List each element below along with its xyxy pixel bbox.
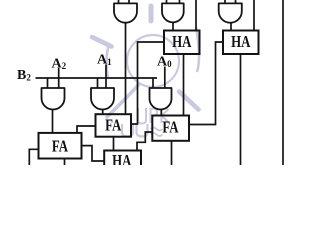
wire Gt4 output to HA2 <box>230 23 232 31</box>
wire bus to gate3 stub <box>152 78 154 88</box>
and gate Gm1 <box>42 88 65 110</box>
and gate Gm2 <box>91 88 114 110</box>
half adder HA2 box <box>223 31 259 55</box>
wire HA1 sum output to FA2 <box>183 54 185 116</box>
full adder FA3 box <box>39 133 82 159</box>
svg-text:A1: A1 <box>97 53 112 68</box>
half adder HA1 box <box>164 31 200 55</box>
watermark shine arc right <box>196 27 199 72</box>
and gate Gt1 top <box>114 3 137 22</box>
wire A1 drop <box>105 65 107 89</box>
wire V1 full height right <box>282 0 284 165</box>
wire bus B2 <box>36 77 158 79</box>
watermark letters row2 <box>122 124 133 137</box>
wire A2 drop <box>58 68 60 88</box>
and gate Gm3 <box>150 88 172 110</box>
watermark dash upper-left <box>92 37 112 47</box>
svg-text:HA: HA <box>172 34 192 52</box>
wire HA2 sum output to bottom <box>240 54 242 165</box>
wire FA1 output to HA3 <box>113 137 115 151</box>
wire Wf FA3 right to HA3 left <box>82 146 105 161</box>
wire Gt1 output long to FA1 <box>125 22 127 114</box>
wire Gm2 output to FA1 <box>102 110 104 115</box>
wire Gm3 output to FA2 <box>160 110 162 116</box>
wire Wd FA2 left to HA3 top <box>137 132 152 151</box>
wire top stubs gate Gt2 <box>167 0 180 3</box>
wire Gt2 output to HA1 <box>172 22 174 30</box>
full adder FA1 box <box>96 114 132 137</box>
watermark bulb circle <box>127 35 179 87</box>
wire FA2 output to bottom <box>171 141 173 165</box>
svg-text:FA: FA <box>105 117 121 135</box>
wire Wc FA1 left to FA3 top <box>77 126 96 133</box>
svg-text:B2: B2 <box>17 68 31 83</box>
watermark ray up <box>149 6 154 21</box>
svg-text:FA: FA <box>162 119 178 137</box>
and gate Gt4 top <box>219 3 242 22</box>
half adder HA3 box (cut at bottom) <box>104 151 141 175</box>
watermark letters row1 <box>138 108 146 124</box>
full adder FA2 box <box>152 116 189 141</box>
svg-text:A2: A2 <box>52 57 67 72</box>
wire V4 into HA1 <box>195 0 197 31</box>
and gate Gt2 top <box>162 3 184 22</box>
wire V3 into HA2 <box>253 0 255 31</box>
wire top stubs gate Gt4 <box>225 0 236 3</box>
wire bus to gate1 stub <box>47 78 49 88</box>
wire Wa HA1 left to FA1 right <box>131 42 164 124</box>
wire We FA3 left to bottom <box>29 149 38 165</box>
watermark shine arc left <box>106 44 109 78</box>
svg-text:FA: FA <box>52 138 68 156</box>
svg-text:HA: HA <box>231 34 251 52</box>
watermark lightbulb logo <box>92 6 199 137</box>
svg-text:HA: HA <box>112 153 132 165</box>
wire Gm1 output to FA3 <box>52 110 54 134</box>
wire Wb FA2 right to HA2 left <box>189 42 223 125</box>
wire FA3 output to bottom <box>64 159 66 166</box>
wire bus to gate2 stub <box>97 78 99 88</box>
watermark dash lower-right <box>179 92 199 110</box>
wire top stubs gate Gt1 <box>119 0 130 3</box>
watermark swoosh diagonal to lower-left <box>107 57 163 117</box>
wire A0 drop <box>164 67 166 89</box>
